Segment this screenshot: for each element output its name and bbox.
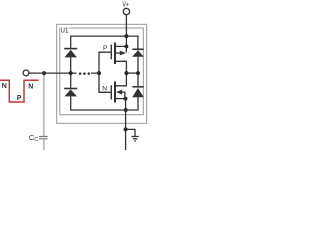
svg-text:P: P xyxy=(103,45,108,52)
svg-text:CC: CC xyxy=(29,133,38,143)
svg-text:U1: U1 xyxy=(60,27,68,34)
svg-text:N: N xyxy=(2,83,7,90)
svg-text:V+: V+ xyxy=(122,2,129,9)
svg-text:N: N xyxy=(102,86,107,93)
svg-text:P: P xyxy=(17,95,22,102)
svg-text:N: N xyxy=(28,83,33,90)
